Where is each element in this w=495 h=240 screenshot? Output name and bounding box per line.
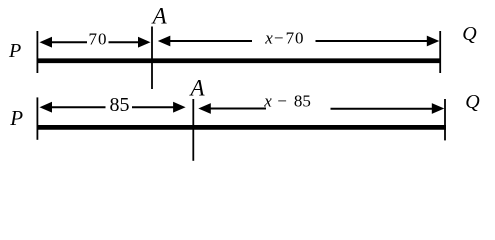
dimension arrow 85 : left line (51, 106, 106, 108)
dimension arrow x-70 : left arrowhead (158, 36, 171, 47)
tick at A (top segment) (151, 27, 153, 90)
tick at P (bottom segment) (36, 97, 38, 139)
dimension arrow x-85 : left line (210, 108, 266, 110)
dimension arrow x-85 : left arrowhead (198, 103, 211, 114)
svg-text:A: A (151, 3, 168, 28)
dimension arrow x-85 : right line (331, 108, 433, 110)
dimension arrow 85 : right line (132, 106, 174, 108)
dimension arrow 70 : right arrowhead (138, 37, 151, 48)
tick at A (bottom segment) (192, 99, 194, 161)
svg-text:x−70: x−70 (264, 29, 304, 48)
tick at P (top segment) (36, 31, 38, 73)
tick at Q (bottom segment) (444, 99, 446, 140)
thick segment line P to Q (top) (37, 58, 442, 63)
svg-text:85: 85 (110, 94, 130, 116)
svg-text:Q: Q (462, 23, 477, 45)
dimension arrow 85 : left arrowhead (40, 102, 53, 113)
tick at Q (top segment) (439, 31, 441, 73)
svg-text:A: A (189, 76, 206, 101)
dimension arrow 70 : right line (109, 41, 140, 43)
svg-text:P: P (9, 106, 23, 130)
thick segment line P to Q (bottom) (37, 125, 446, 130)
dimension arrow 85 : right arrowhead (173, 102, 186, 113)
svg-text:Q: Q (465, 91, 480, 113)
dimension arrow x-70 : right line (316, 40, 428, 42)
svg-text:70: 70 (89, 30, 108, 49)
dimension arrow x-70 : right arrowhead (427, 36, 440, 47)
dimension arrow 70 : left arrowhead (40, 37, 53, 48)
svg-text:x−85: x−85 (263, 91, 311, 110)
dimension arrow 70 : left line (51, 41, 87, 43)
dimension arrow x-70 : left line (169, 40, 252, 42)
svg-text:P: P (8, 40, 21, 62)
dimension arrow x-85 : right arrowhead (432, 103, 445, 114)
